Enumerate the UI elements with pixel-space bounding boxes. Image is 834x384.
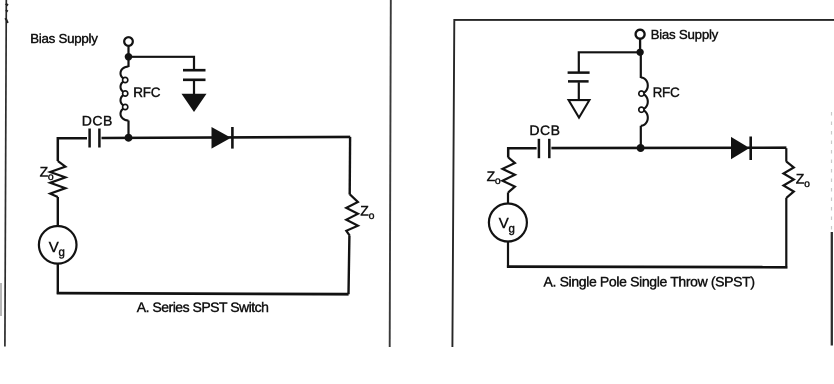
label Zo (left circuit, load side) (360, 203, 374, 222)
caption A. Single Pole Single Throw (SPST) (544, 274, 755, 290)
main wire DCB to right corner (102, 137, 351, 138)
label DCB (left) (82, 112, 113, 128)
capacitor DCB (right) (539, 139, 549, 158)
capacitor DCB (left) (90, 129, 100, 148)
resistor Zo (right circuit, source side) (503, 157, 515, 192)
svg-text:DCB: DCB (529, 122, 560, 138)
junction node (right, main line) (637, 144, 645, 152)
wire left corner to DCB (right circuit) (508, 148, 536, 157)
wire terminal to node (127, 46, 129, 58)
edge tick marks top-left (6, 4, 8, 24)
label RFC (right) (653, 85, 680, 100)
figure box border (right figure) (452, 20, 834, 347)
label Zo (left circuit, source side) (40, 164, 54, 183)
wire source to bottom (57, 264, 59, 294)
svg-text:Bias Supply: Bias Supply (30, 31, 98, 46)
wire terminal to node (right) (639, 39, 641, 54)
bypass capacitor (left) (183, 70, 206, 80)
svg-text:RFC: RFC (133, 85, 160, 100)
wire capacitor to ground (right) (578, 83, 580, 100)
diode D (left circuit) (212, 127, 233, 149)
junction node (left, main line) (125, 134, 133, 142)
junction node (left, top) (125, 53, 133, 61)
label DCB (right) (529, 122, 560, 138)
source Vg (left circuit) (39, 226, 77, 264)
ground (left, filled triangle) (182, 94, 207, 112)
bias terminal (left) open circle (124, 37, 133, 46)
caption A. Series SPST Switch (137, 299, 269, 315)
figure box right edge (partial, right figure) (830, 112, 833, 346)
svg-text:RFC: RFC (653, 85, 680, 100)
label Bias Supply (left) (30, 31, 98, 46)
diode D (right circuit) (731, 137, 751, 161)
svg-text:DCB: DCB (82, 112, 113, 128)
right wire down from main line (right circuit) (785, 148, 787, 162)
svg-text:Zo: Zo (360, 203, 374, 222)
bias terminal (right) open circle (636, 30, 645, 39)
wire source to bottom (right circuit) (507, 242, 509, 268)
wire node to bypass capacitor (129, 57, 195, 69)
svg-text:Zo: Zo (487, 168, 501, 187)
main wire DCB to right corner (right circuit) (551, 146, 786, 149)
bottom wire (left circuit) (57, 293, 349, 294)
label RFC (left) (133, 85, 160, 100)
label Bias Supply (right) (651, 27, 719, 42)
wire left corner to DCB (58, 138, 87, 161)
svg-text:Bias Supply: Bias Supply (651, 27, 719, 42)
bypass capacitor (right) (568, 73, 590, 82)
right wire down from main line (left circuit) (349, 137, 352, 195)
label Zo (right circuit, source side) (487, 168, 501, 187)
column divider line (390, 0, 391, 347)
wire node to bypass capacitor (right) (579, 52, 640, 72)
wire resistor to source (57, 197, 59, 227)
wire resistor to bottom (right circuit, load side) (785, 198, 787, 268)
svg-text:Zo: Zo (796, 171, 810, 190)
inductor RFC (right) (639, 52, 648, 149)
wire resistor to source (right circuit) (507, 192, 509, 204)
wire capacitor to ground arrow (193, 81, 195, 95)
resistor Zo (right circuit, load side) (784, 162, 794, 198)
bottom wire (right circuit) (507, 265, 788, 268)
edge smudge bottom-left (0, 283, 2, 316)
svg-text:A. Series SPST Switch: A. Series SPST Switch (137, 299, 269, 315)
inductor RFC (left) (121, 55, 129, 139)
junction node (right, top) (636, 49, 643, 56)
wire resistor to bottom (left circuit, load side) (347, 236, 350, 294)
page left border (5, 0, 6, 347)
svg-text:A. Single Pole Single Throw (S: A. Single Pole Single Throw (SPST) (544, 274, 755, 290)
source Vg (right circuit) (489, 204, 527, 242)
resistor Zo (left circuit, load side) (346, 194, 358, 236)
ground (right, open triangle) (569, 100, 590, 118)
label Zo (right circuit, load side) (796, 171, 810, 190)
resistor Zo (left circuit, source side) (50, 161, 65, 197)
